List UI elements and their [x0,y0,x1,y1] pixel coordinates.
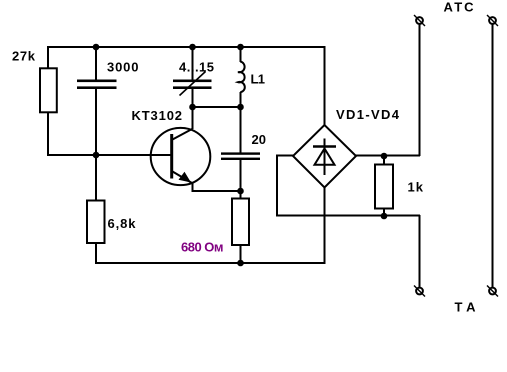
wire C 3000 branch upper [95,46,97,80]
svg-text:KT3102: KT3102 [132,108,183,123]
wire emitter row [192,182,242,191]
terminal TA left [414,286,425,297]
wire 1k bottom lead [383,209,385,216]
wire right column ATC to TA [492,25,494,288]
wire base row [47,154,171,156]
wire R 680 bottom lead [240,245,242,264]
wire C 4...15 branch lower [192,88,194,109]
transistor emitter diagonal [173,172,193,184]
junction node 1k top [381,153,388,160]
transistor Q1 KT3102 circle [151,128,211,185]
bridge diode axis line [324,139,326,176]
wire left drop to R 27k [47,46,49,68]
wire bridge bottom lead [324,187,326,264]
capacitor 3000 [77,80,117,90]
svg-text:6,8k: 6,8k [108,216,137,231]
bridge diode cathode bar [313,145,336,147]
wire 1k top lead [383,156,385,164]
terminal ATC left [414,15,425,26]
junction node mid row L1 [237,104,244,111]
svg-text:27k: 27k [12,49,36,64]
capacitor 4...15 variable [173,80,212,90]
svg-text:L1: L1 [251,72,266,87]
wire R 6,8k bottom lead [95,243,97,264]
wire bottom rail [95,262,326,264]
wire C 20 branch upper [240,107,242,153]
svg-text:4...15: 4...15 [179,60,214,75]
bridge diode triangle [315,149,335,165]
junction node top C3000 [93,44,100,51]
junction node bottom rail [237,260,244,267]
inductor L1 [238,62,245,93]
wire mid row between var-cap and L1 [193,106,242,108]
junction node emitter row [237,188,244,195]
resistor 6,8k [87,201,105,244]
diode bridge VD1-VD4 diamond [293,125,356,188]
resistor 27k [40,68,57,112]
wire bridge top lead [324,46,326,125]
transistor base bar [170,134,173,179]
wire R 27k bottom lead [47,113,49,156]
svg-text:ТА: ТА [455,300,477,315]
svg-text:VD1-VD4: VD1-VD4 [336,107,400,122]
svg-text:20: 20 [252,132,267,147]
terminal TA right [487,286,498,297]
junction node mid row var-cap [189,104,196,111]
variable capacitor diagonal stroke [180,72,206,96]
wire L1 bottom lead [240,92,242,108]
svg-text:1k: 1k [408,180,424,195]
wire C 20 branch lower [240,160,242,193]
wire C 4...15 branch upper [192,46,194,80]
svg-text:680 Ом: 680 Ом [181,239,224,254]
wire top rail [47,46,326,48]
wire R 680 top lead [240,191,242,198]
wire collector vertical [192,107,194,129]
svg-text:3000: 3000 [107,60,139,75]
junction node top var-cap [189,44,196,51]
transistor emitter arrow [179,172,192,183]
junction node top L1 [237,44,244,51]
capacitor 20 [221,152,260,160]
junction node base row [93,152,100,159]
transistor collector diagonal [173,129,193,140]
wire bridge right to ATC terminal [355,25,420,157]
wire bridge left to lower rail [276,156,420,216]
terminal ATC right [487,15,498,26]
wire C 3000 branch lower down to R 6,8k [95,88,97,200]
resistor 1k [375,165,393,209]
wire L1 top lead [240,46,242,62]
junction node 1k bottom [381,213,388,220]
svg-text:АТС: АТС [444,0,475,15]
resistor 680 Om [232,199,249,246]
wire lower right drop to TA terminal [419,215,421,287]
